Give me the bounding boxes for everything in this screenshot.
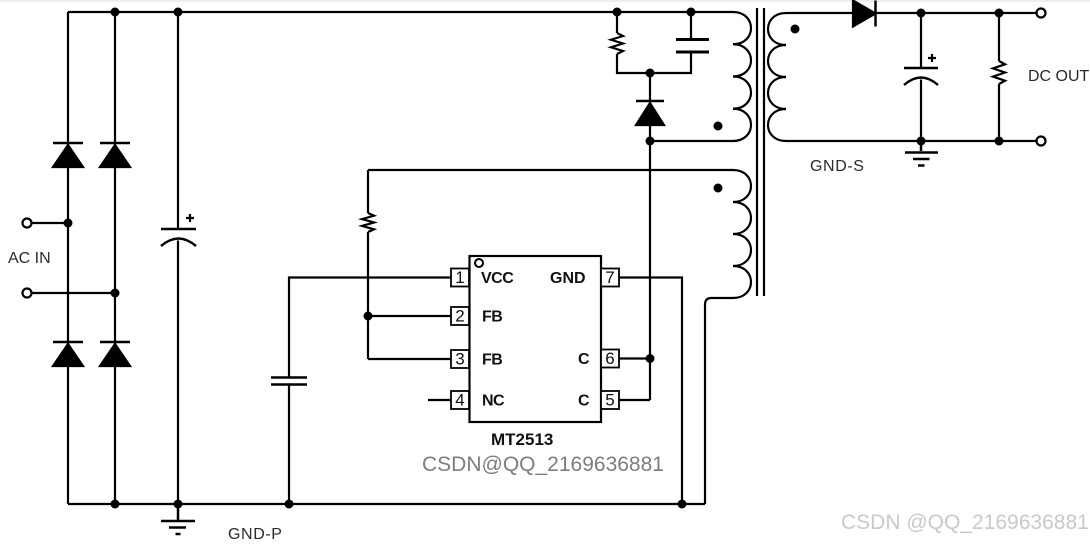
diode D5 clamp bbox=[636, 73, 664, 141]
svg-text:C: C bbox=[578, 393, 590, 410]
wire pin2 lead bbox=[368, 315, 451, 317]
transformer T1 core bbox=[757, 8, 764, 296]
diode D3 (bridge lower-left) bbox=[53, 342, 83, 366]
junction dots top rail bbox=[111, 8, 120, 17]
diode D4 (bridge lower-right) bbox=[100, 342, 130, 366]
svg-text:1: 1 bbox=[455, 268, 464, 287]
svg-text:DC OUT: DC OUT bbox=[1028, 68, 1090, 85]
transformer T1 auxiliary winding bbox=[368, 170, 751, 504]
svg-text:MT2513: MT2513 bbox=[491, 430, 553, 449]
phase dot primary bbox=[714, 122, 723, 131]
junction dot snubber node bbox=[646, 69, 655, 78]
wire pin4 NC stub bbox=[428, 399, 451, 401]
wire AC lower lead bbox=[32, 292, 116, 294]
junction dots secondary top rail bbox=[917, 9, 926, 18]
terminal AC IN lower bbox=[23, 289, 32, 298]
junction dot AC lower bbox=[111, 289, 120, 298]
pin 2 box bbox=[451, 307, 469, 325]
wire pin5 lead bbox=[619, 399, 650, 401]
wire bottom primary rail GND-P bbox=[68, 503, 705, 505]
transformer T1 secondary winding bbox=[768, 13, 786, 141]
resistor R3 load bbox=[993, 13, 1005, 141]
terminal AC IN upper bbox=[23, 219, 32, 228]
svg-text:GND: GND bbox=[550, 270, 586, 287]
svg-text:GND-S: GND-S bbox=[810, 158, 865, 175]
capacitor C1 bulk electrolytic bbox=[161, 12, 196, 504]
svg-text:C: C bbox=[578, 351, 590, 368]
pin 7 box bbox=[601, 269, 619, 287]
svg-text:VCC: VCC bbox=[481, 270, 514, 287]
phase dot auxiliary bbox=[714, 184, 723, 193]
terminal DC OUT upper bbox=[1037, 9, 1046, 18]
wire left vertical (AC leg 1) bbox=[67, 12, 69, 504]
resistor R1 snubber bbox=[611, 12, 649, 73]
wire pin7 GND lead to bottom rail bbox=[619, 278, 682, 505]
svg-text:CSDN@QQ_2169636881: CSDN@QQ_2169636881 bbox=[422, 453, 664, 476]
wire second vertical (AC leg 2) bbox=[114, 12, 116, 504]
svg-text:NC: NC bbox=[482, 393, 505, 410]
diode D2 (bridge upper-right) bbox=[100, 143, 130, 167]
svg-text:6: 6 bbox=[605, 349, 614, 368]
pin 1 indicator circle bbox=[475, 259, 483, 267]
junction dots secondary bottom rail bbox=[917, 137, 926, 146]
pin 6 box bbox=[601, 350, 619, 368]
wire top primary rail bbox=[68, 11, 733, 13]
capacitor C2 snubber bbox=[650, 12, 709, 73]
pin 5 box bbox=[601, 391, 619, 409]
diode D1 (bridge upper-left) bbox=[53, 143, 83, 167]
wire pin1 VCC lead bbox=[289, 278, 451, 378]
svg-text:CSDN @QQ_2169636881: CSDN @QQ_2169636881 bbox=[841, 511, 1089, 534]
svg-text:7: 7 bbox=[605, 268, 614, 287]
op-amp U1 MT2513 body bbox=[470, 256, 602, 422]
junction dot AC upper bbox=[64, 219, 73, 228]
svg-text:GND-P: GND-P bbox=[228, 526, 283, 543]
junction dot drain node bbox=[646, 137, 655, 146]
pin 4 box bbox=[451, 391, 469, 409]
svg-text:AC IN: AC IN bbox=[8, 250, 51, 267]
pin 1 box bbox=[451, 269, 469, 287]
capacitor C3 VCC bbox=[271, 378, 307, 505]
svg-text:5: 5 bbox=[605, 391, 614, 410]
terminal DC OUT lower bbox=[1037, 137, 1046, 146]
wire pin6 lead bbox=[619, 357, 650, 359]
transformer T1 primary winding bbox=[650, 12, 751, 141]
ground GND-S symbol bbox=[905, 141, 938, 166]
wire secondary bottom rail bbox=[786, 140, 1037, 142]
top edge strip bbox=[0, 0, 1090, 2]
ground GND-P symbol bbox=[161, 504, 195, 534]
capacitor C4 output electrolytic bbox=[904, 13, 938, 141]
resistor R2 feedback bbox=[362, 170, 374, 359]
diode D6 output rectifier bbox=[786, 1, 1037, 27]
junction dot FB node bbox=[364, 312, 373, 321]
svg-text:2: 2 bbox=[455, 307, 464, 326]
junction dots bottom rail bbox=[111, 500, 120, 509]
svg-text:4: 4 bbox=[455, 391, 464, 410]
svg-text:FB: FB bbox=[482, 352, 502, 369]
svg-text:3: 3 bbox=[455, 350, 464, 369]
wire AC upper lead bbox=[32, 222, 69, 224]
wire drain node vertical to pins 5/6 bbox=[649, 141, 651, 400]
svg-text:FB: FB bbox=[482, 309, 502, 326]
wire pin3 lead bbox=[368, 358, 451, 360]
pin 3 box bbox=[451, 350, 469, 368]
phase dot secondary bbox=[791, 25, 800, 34]
junction dot pin6 node bbox=[646, 354, 655, 363]
